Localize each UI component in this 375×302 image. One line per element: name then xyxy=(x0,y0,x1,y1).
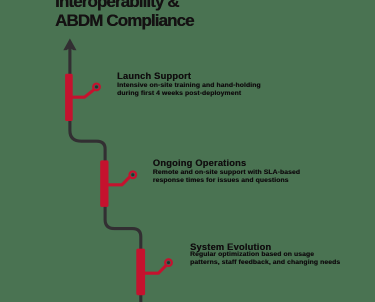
capsule 2 xyxy=(100,160,108,207)
wire main winding line xyxy=(70,44,141,302)
ring 1 xyxy=(93,84,100,91)
connector 1 elbow xyxy=(72,90,94,97)
item 2: Ongoing Operations xyxy=(153,158,300,186)
ring 3 hole xyxy=(167,261,171,265)
connector 2 elbow xyxy=(108,177,130,184)
ring 2 xyxy=(130,172,137,179)
capsule 1 xyxy=(65,74,73,121)
ring 3 xyxy=(165,259,172,266)
capsule 3 xyxy=(136,249,145,296)
item 1: Launch Support xyxy=(117,71,261,98)
item 3: System Evolution xyxy=(190,242,340,267)
title xyxy=(55,0,194,30)
connector 3 elbow xyxy=(144,266,166,273)
arrowhead xyxy=(63,38,76,50)
ring 1 hole xyxy=(95,85,99,89)
ring 2 hole xyxy=(131,173,135,177)
